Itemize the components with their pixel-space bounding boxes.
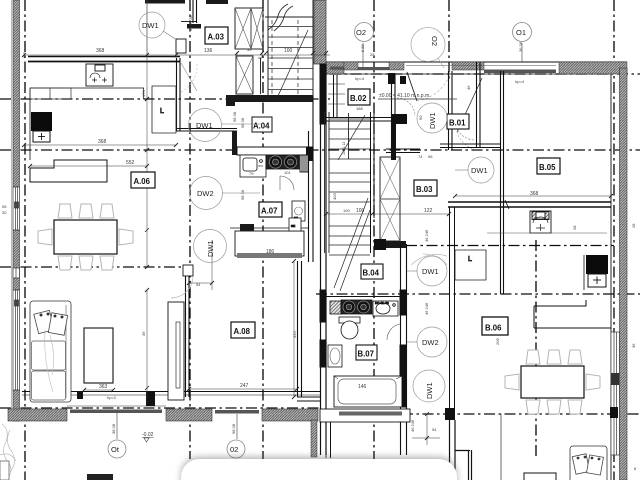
svg-text:DW1: DW1	[428, 112, 437, 129]
fridge A	[300, 155, 308, 172]
balloon DW1 rotated B bottom	[413, 370, 445, 402]
washing machine A.07	[292, 201, 305, 221]
svg-text:DO-CL-03: DO-CL-03	[375, 301, 389, 305]
svg-text:403: 403	[332, 193, 337, 200]
terrace window recess A.08	[235, 231, 304, 256]
kitchen counter B.06	[534, 300, 611, 328]
fireplace B hearth	[588, 274, 606, 287]
wardrobe A.08 left	[168, 302, 184, 400]
counter wall edge A kitchen left	[30, 87, 144, 89]
svg-text:146: 146	[358, 384, 367, 390]
wall B.01 left	[448, 71, 450, 150]
balloon DW1 hall A	[189, 109, 263, 142]
svg-text:46 246: 46 246	[424, 302, 429, 315]
dining table B	[521, 366, 584, 398]
svg-text:368: 368	[530, 191, 539, 197]
svg-text:35: 35	[247, 47, 252, 52]
svg-text:A.07: A.07	[261, 207, 277, 216]
svg-text:B.04: B.04	[363, 269, 380, 278]
balloon DW1 rotated entry B	[417, 103, 447, 133]
balloon DW2 A	[190, 177, 261, 210]
svg-text:O2: O2	[430, 36, 439, 46]
svg-text:O1: O1	[516, 28, 526, 37]
svg-text:100: 100	[284, 48, 293, 54]
svg-text:46: 46	[466, 85, 471, 90]
wall pier black	[146, 391, 155, 406]
wall B.01/B.05 divider	[476, 62, 478, 147]
kitchen B counter hatched unit	[330, 301, 341, 314]
svg-text:122: 122	[424, 208, 433, 214]
svg-text:DW1: DW1	[206, 240, 215, 257]
kitchen upper cabinets A	[30, 88, 71, 99]
room label A.04	[252, 117, 272, 132]
svg-text:hp=4: hp=4	[515, 79, 525, 84]
fireplace A hearth	[33, 131, 50, 142]
svg-text:B.06: B.06	[485, 324, 502, 333]
wall B left boundary	[320, 64, 326, 455]
door arc B.07	[387, 324, 400, 340]
svg-text:100: 100	[356, 208, 365, 214]
svg-text:L: L	[160, 108, 164, 115]
svg-text:96: 96	[428, 154, 433, 159]
svg-text:02: 02	[230, 445, 238, 454]
svg-text:B.02: B.02	[350, 94, 367, 103]
svg-text:247: 247	[240, 383, 249, 389]
svg-text:L: L	[468, 256, 472, 263]
svg-text:38 08: 38 08	[111, 423, 116, 434]
door leaf B.01	[457, 78, 482, 132]
room label B.06	[482, 317, 508, 335]
svg-text:363: 363	[99, 384, 108, 390]
grid axis horizontal y=150	[0, 149, 640, 151]
room label A.08	[231, 322, 255, 338]
vertical dim chain A	[146, 55, 148, 267]
svg-text:136: 136	[204, 48, 213, 54]
svg-text:06: 06	[2, 204, 7, 209]
svg-text:320: 320	[292, 331, 297, 338]
wall block corridor	[391, 114, 407, 124]
window left wall upper	[13, 187, 20, 390]
room label A.07	[259, 202, 282, 217]
stove A with burners	[266, 155, 299, 169]
window right wall	[611, 332, 620, 455]
svg-text:74: 74	[418, 154, 423, 159]
dining chairs A bottom	[58, 256, 114, 270]
wall B.02 bottom	[326, 117, 391, 119]
svg-text:B.07: B.07	[358, 350, 374, 359]
bathroom A.07 door arc	[280, 176, 294, 190]
svg-text:DW2: DW2	[197, 189, 214, 198]
dining table A	[54, 220, 117, 254]
wall end cap kitchen A	[306, 147, 313, 161]
washbasin unit top (A bath)	[86, 64, 113, 86]
svg-text:B.01: B.01	[449, 119, 466, 128]
dim line A bottom	[84, 389, 113, 391]
svg-text:54: 54	[196, 282, 201, 287]
door swing arcs corridor	[411, 254, 447, 265]
top exterior wall of unit B	[326, 62, 627, 101]
hatch pier top wall	[344, 62, 358, 70]
wall left of A.08	[185, 267, 187, 397]
axis balloon 02 bottom	[227, 414, 245, 458]
sofa cushions rotated	[34, 310, 68, 335]
window band top (B unit)	[330, 67, 344, 70]
door swing arc A.08	[171, 276, 193, 298]
room label A.06	[131, 172, 155, 188]
svg-text:28: 28	[631, 223, 636, 228]
terrace edge line B	[500, 414, 502, 480]
fireplace B (black)	[586, 255, 608, 274]
grid axis horizontal y=99	[0, 98, 330, 100]
wall corner hall/kitchen	[232, 131, 237, 155]
wall B.02 right	[391, 74, 393, 160]
svg-text:180: 180	[266, 249, 275, 255]
dimension line top A	[24, 54, 330, 56]
svg-text:30: 30	[2, 210, 7, 215]
svg-text:79: 79	[249, 171, 254, 176]
room label B.04	[361, 264, 383, 279]
window band bottom left	[70, 410, 162, 414]
dining chairs B top	[526, 350, 582, 364]
wall right of A.08	[297, 261, 299, 397]
room label B.07	[356, 345, 377, 360]
svg-text:368: 368	[98, 139, 107, 145]
white utility box bottom-left	[0, 461, 9, 480]
svg-text:O2: O2	[356, 28, 366, 37]
dining chairs B sides	[505, 374, 600, 390]
svg-text:552: 552	[126, 160, 135, 166]
svg-text:±0.00 = 41.10 m n.p.m.: ±0.00 = 41.10 m n.p.m.	[379, 93, 431, 99]
grid axis vertical x=263	[262, 0, 264, 459]
stair landing lines B top	[328, 84, 345, 104]
closet L (B)	[455, 250, 486, 280]
coffee table B	[524, 473, 556, 480]
wall corner B bottom right	[445, 408, 455, 420]
bottom wall inner face lines	[22, 391, 320, 393]
grid axis horizontal y=414 right	[320, 413, 640, 415]
dimension line A kitchen	[24, 144, 176, 146]
wall A.07 bottom	[240, 224, 254, 231]
dining chairs A sides	[38, 229, 133, 245]
grid axis vertical x=190	[189, 0, 191, 459]
door swing A.06	[181, 63, 197, 91]
staircase A	[265, 0, 313, 101]
axis balloon O2 top	[355, 23, 374, 71]
closet X corridor B.03	[380, 157, 400, 241]
grid marker block right wall	[610, 407, 618, 418]
wall B06 corridor divider	[449, 207, 451, 420]
stove B	[341, 300, 372, 314]
svg-text:DW1: DW1	[142, 21, 159, 30]
wall B right lower	[455, 450, 470, 452]
svg-text:46 246: 46 246	[424, 229, 429, 242]
svg-text:DW2: DW2	[422, 338, 439, 347]
balloon DW2 B	[407, 327, 447, 357]
grid dash-dot y=245 stub	[406, 245, 614, 247]
dining chairs B bottom	[526, 400, 582, 414]
wall under stairs A	[226, 95, 313, 102]
svg-text:98 38: 98 38	[240, 117, 245, 128]
grid axis horizontal y=408 left	[0, 407, 320, 409]
right exterior wall hatched	[610, 68, 627, 480]
sofa A	[30, 301, 71, 402]
top-left small walls	[145, 0, 185, 4]
beam line B.06 top	[487, 232, 607, 234]
balloon DW1 top-left	[139, 12, 177, 40]
central dividing wall hatched top	[314, 0, 326, 64]
svg-text:90: 90	[418, 115, 423, 120]
wall L corridor/B.04	[374, 241, 406, 248]
dining chairs A top	[58, 204, 114, 218]
dimension tick marks	[22, 51, 613, 440]
svg-text:28: 28	[572, 225, 577, 230]
svg-text:36: 36	[631, 343, 636, 348]
svg-text:368: 368	[96, 48, 105, 54]
grid axis horizontal y=294 right	[316, 293, 640, 295]
wall B stairwell right	[370, 112, 372, 253]
entry jamb blocks	[388, 73, 395, 84]
room label B.02	[348, 89, 370, 105]
room label B.05	[537, 158, 560, 174]
svg-text:206: 206	[495, 338, 500, 345]
wall B.01 bottom	[440, 143, 500, 145]
kitchen sink cabinet A	[240, 155, 266, 177]
toilet B	[339, 317, 360, 339]
balloon DW1 center B	[407, 256, 447, 286]
svg-text:A.04: A.04	[253, 122, 270, 131]
wall B bottom band	[320, 409, 410, 422]
svg-text:54: 54	[432, 427, 437, 432]
grid axis vertical x=614	[613, 0, 615, 480]
kitchen counter A.06	[30, 160, 107, 182]
svg-text:100: 100	[343, 208, 350, 213]
svg-text:A.08: A.08	[234, 327, 251, 336]
staircase B	[325, 112, 371, 291]
wall top of A.06	[28, 56, 180, 58]
svg-text:188: 188	[356, 106, 363, 111]
axis balloon Ot bottom	[108, 413, 126, 458]
wall B kitchen/bath divider	[320, 296, 407, 298]
entry door leaf	[407, 72, 417, 101]
planter box bottom	[87, 474, 113, 480]
balloon DW1 rotated A	[194, 230, 227, 263]
wall B-unit boundary mid	[308, 131, 310, 262]
svg-text:A.03: A.03	[208, 33, 225, 42]
wall dark pier right	[611, 373, 619, 385]
window left wall small	[13, 268, 20, 278]
bathtub B	[334, 376, 402, 407]
overlay card	[181, 459, 457, 480]
svg-text:98 38: 98 38	[240, 189, 245, 200]
coffee table A	[84, 328, 113, 383]
svg-text:tl 28: tl 28	[360, 44, 365, 52]
dim line B.05	[455, 195, 611, 197]
door arc B.01	[455, 120, 475, 140]
wall B.05 left	[500, 71, 502, 294]
svg-text:B.05: B.05	[539, 163, 556, 172]
wardrobe X lower (hall)	[236, 56, 262, 94]
svg-text:28: 28	[370, 52, 375, 57]
svg-text:-0.02: -0.02	[142, 432, 154, 438]
grid axis vertical x=374	[373, 0, 375, 459]
wall B.02 left (landing)	[333, 75, 335, 117]
svg-text:hp=4: hp=4	[355, 76, 365, 81]
window band top right	[484, 70, 556, 74]
wall left of A.03 hall	[176, 58, 178, 131]
washbasin B.05 wall	[530, 211, 551, 233]
wardrobe X upper (A.03)	[235, 8, 263, 49]
room label B.01	[447, 114, 469, 129]
axis balloon O2 rotated	[411, 28, 445, 69]
svg-text:101: 101	[284, 170, 291, 175]
svg-text:B.03: B.03	[416, 185, 433, 194]
left exterior wall hatched	[12, 0, 20, 421]
sofa B	[570, 446, 607, 480]
vertical dim A.08 right	[293, 261, 295, 397]
svg-text:Ot: Ot	[111, 445, 120, 454]
svg-text:170: 170	[141, 90, 146, 97]
wall hall bottom	[176, 128, 237, 130]
svg-text:DW1: DW1	[471, 166, 488, 175]
top walls of A.03 entrance	[206, 0, 228, 4]
closet L (A)	[152, 86, 176, 133]
washbasin B left wall	[328, 345, 342, 367]
room label B.03	[414, 180, 437, 196]
bottom exterior wall of unit A	[8, 391, 320, 421]
balloon DW1 right top	[455, 157, 494, 183]
stair step numbers	[342, 142, 346, 155]
svg-text:DW1: DW1	[422, 267, 439, 276]
svg-text:36: 36	[141, 331, 146, 336]
sink B	[373, 301, 398, 316]
svg-text:A.06: A.06	[134, 177, 151, 186]
wall B bath right	[400, 244, 407, 455]
grid axis vertical x=25	[24, 0, 26, 480]
svg-text:DW1: DW1	[196, 121, 213, 130]
grid axis vertical x=536	[535, 240, 537, 459]
dim arrow B bottom	[426, 414, 428, 445]
wall corridor top	[386, 148, 420, 150]
fireplace A (black)	[31, 112, 52, 131]
svg-text:98 38: 98 38	[232, 111, 237, 122]
grid axis horizontal y=267 left	[0, 266, 188, 268]
dim arrow A.08 top	[189, 282, 212, 284]
window band bottom center	[215, 410, 259, 414]
grid axis horizontal y=74	[330, 73, 640, 75]
svg-text:98 08: 98 08	[231, 423, 236, 434]
dim line stairs B	[326, 213, 449, 215]
svg-text:DW1: DW1	[425, 382, 434, 399]
wall B.05 bottom	[448, 201, 611, 203]
window left wall lower	[13, 290, 20, 390]
wall kitchen band A	[237, 147, 313, 155]
axis balloon O1 top	[513, 23, 532, 63]
svg-text:46 246: 46 246	[410, 419, 415, 432]
door arc B corridor	[397, 98, 415, 116]
svg-text:98 54 28: 98 54 28	[188, 15, 193, 31]
svg-text:hp=2: hp=2	[107, 395, 117, 400]
grid axis vertical x=449	[448, 0, 450, 80]
door jamb A.08	[183, 265, 193, 276]
wall pier black	[77, 391, 83, 399]
room label A.03	[205, 27, 228, 44]
dryer box A.07	[289, 218, 301, 231]
tree sketch bottom left	[0, 424, 16, 478]
svg-text:su: su	[291, 223, 295, 228]
